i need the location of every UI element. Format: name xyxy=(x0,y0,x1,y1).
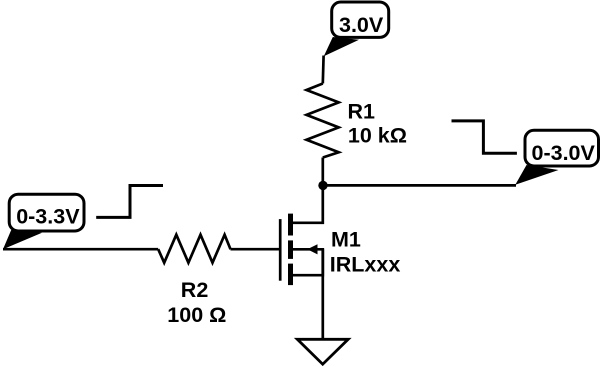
transistor M1 NMOS xyxy=(280,214,323,286)
svg-text:10 kΩ: 10 kΩ xyxy=(348,124,407,148)
gate bar xyxy=(279,219,282,281)
wire 3.0V to R1 xyxy=(321,56,325,84)
resistor R2 xyxy=(158,235,230,263)
source bar xyxy=(288,264,293,286)
junction node drain xyxy=(318,181,327,190)
svg-text:100 Ω: 100 Ω xyxy=(167,303,226,327)
svg-text:M1: M1 xyxy=(331,228,361,252)
svg-text:IRLxxx: IRLxxx xyxy=(330,253,401,277)
svg-text:0-3.3V: 0-3.3V xyxy=(16,205,80,229)
ground xyxy=(297,339,348,364)
drain bar xyxy=(288,214,293,236)
output step waveform xyxy=(452,121,517,153)
wire R2 to M1 gate xyxy=(231,248,281,251)
svg-text:3.0V: 3.0V xyxy=(339,13,384,37)
wire R1 to drain node xyxy=(321,158,324,186)
input step waveform xyxy=(96,186,163,218)
signal callout 0-3.0V xyxy=(515,130,598,184)
svg-text:R2: R2 xyxy=(181,278,209,302)
wire node to M1 drain xyxy=(293,185,323,223)
resistor R1 xyxy=(307,84,339,158)
body arrowhead xyxy=(307,244,317,254)
signal callout 0-3.3V xyxy=(3,194,84,249)
voltage callout 3.0V xyxy=(324,2,389,56)
wire node to output callout xyxy=(323,184,516,187)
body bar xyxy=(288,240,293,259)
body wire with arrow xyxy=(293,249,323,275)
svg-text:0-3.0V: 0-3.0V xyxy=(532,141,596,165)
wire M1 source to ground xyxy=(321,249,324,339)
svg-text:R1: R1 xyxy=(348,100,376,124)
wire input to R2 xyxy=(3,248,158,251)
